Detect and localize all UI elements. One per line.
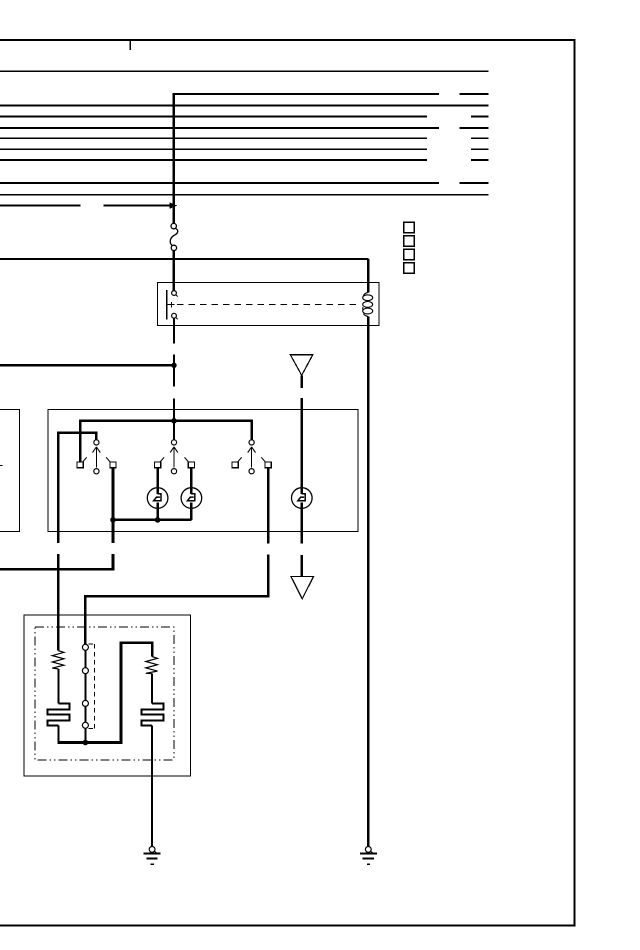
wire feed from bus to fuse [172,93,174,223]
wire condenser bottom rail [57,641,152,743]
relay box [157,283,379,326]
bus line row 9 [0,182,489,184]
node dot condenser rail [83,740,89,746]
wire switch1 common branch down to condenser box [57,433,59,543]
frame bottom border [0,925,576,927]
condenser dash-dot inner box [35,627,174,760]
lamp 1 [147,488,168,509]
capacitor C1 [48,703,70,725]
connector terminal circles [82,644,88,728]
bus line row 7 [0,148,489,150]
node dot rail lamp1 [155,517,161,523]
frame tick mark [129,41,131,50]
wire relay contact down segment 1 [173,318,175,343]
wire horizontal to node [0,364,174,366]
wire lamp 3 resume to lower triangle [301,555,303,577]
connector column wire [84,646,86,743]
wire relay contact down segment 2 [173,354,175,386]
lamp 3 [292,488,313,509]
wire switch1 branch resume and exit left [0,554,114,569]
wire bus drop to switch 1 left terminal [79,420,82,463]
wire relay contact down segment 3 [173,398,175,440]
switch assembly box [48,410,358,532]
wire R2 to C2 [151,674,153,704]
connector label boxes [404,222,414,273]
wire lamp 2 to bottom rail [190,502,193,520]
condenser outer box [24,615,190,776]
wire corner down to relay coil [367,259,369,292]
wire to lamp 3 [301,398,303,494]
resistor R1 [52,651,64,669]
wire below upper triangle stub [301,375,303,388]
left cut-off box [0,410,19,532]
bus line row 4 [0,116,489,118]
node junction dot [171,363,176,368]
bus line row 2 [174,93,489,95]
ground G2 [360,847,377,865]
relay coil [363,292,373,316]
wire switch1 right terminal down [112,468,115,543]
wire switch 2 right terminal to lamp 2 [190,468,193,494]
resistor R2 [146,657,158,674]
frame top border [0,39,576,41]
relay dashed link [177,304,360,306]
relay contact [167,290,178,319]
switch group 1 [77,440,116,474]
node dot rail left [110,517,116,523]
wire relay coil to ground G2 [367,317,369,846]
bus line row 1 [0,70,489,72]
capacitor C2 [142,703,164,725]
switch group 3 [232,440,271,474]
bus line row 3 [0,105,489,107]
upper triangle connector [290,355,313,376]
wire feed to switch 1 common [58,433,96,440]
bus line row 6 [0,137,489,139]
wire R1 to C1 [57,669,59,704]
bus line row 11 with arrow [0,202,177,209]
wire switch3 branch resume, over and down [85,555,269,648]
wire horizontal feed to relay coil [0,258,368,260]
wire thick bus inside box [80,419,251,422]
wire C1 to bus rail [57,726,59,743]
wire C2 to ground G1 [151,726,153,846]
wire resume into condenser box [57,554,59,651]
connector dashed bracket [89,644,95,728]
left box stub wire [0,465,3,467]
wire lamp 1 to bottom rail [156,502,159,520]
wire switch3 right terminal down [267,468,270,544]
fuse [170,223,178,250]
wire bus drop to switch 3 common [250,420,253,440]
lower triangle connector [291,576,314,598]
lamp 2 [181,488,202,509]
wire lamp 3 down stub [301,502,303,543]
bus line row 10 [0,194,489,196]
bus line row 8 [0,159,489,161]
wire switch 2 left terminal to lamp 1 [156,468,159,494]
ground G1 [144,847,161,865]
bus line row 5 [0,127,489,129]
wire fuse to relay contact [172,251,174,291]
switch group 2 [155,440,195,474]
wire bottom rail [113,519,191,522]
node junction dot on bus [171,418,177,424]
frame right border [574,39,576,926]
